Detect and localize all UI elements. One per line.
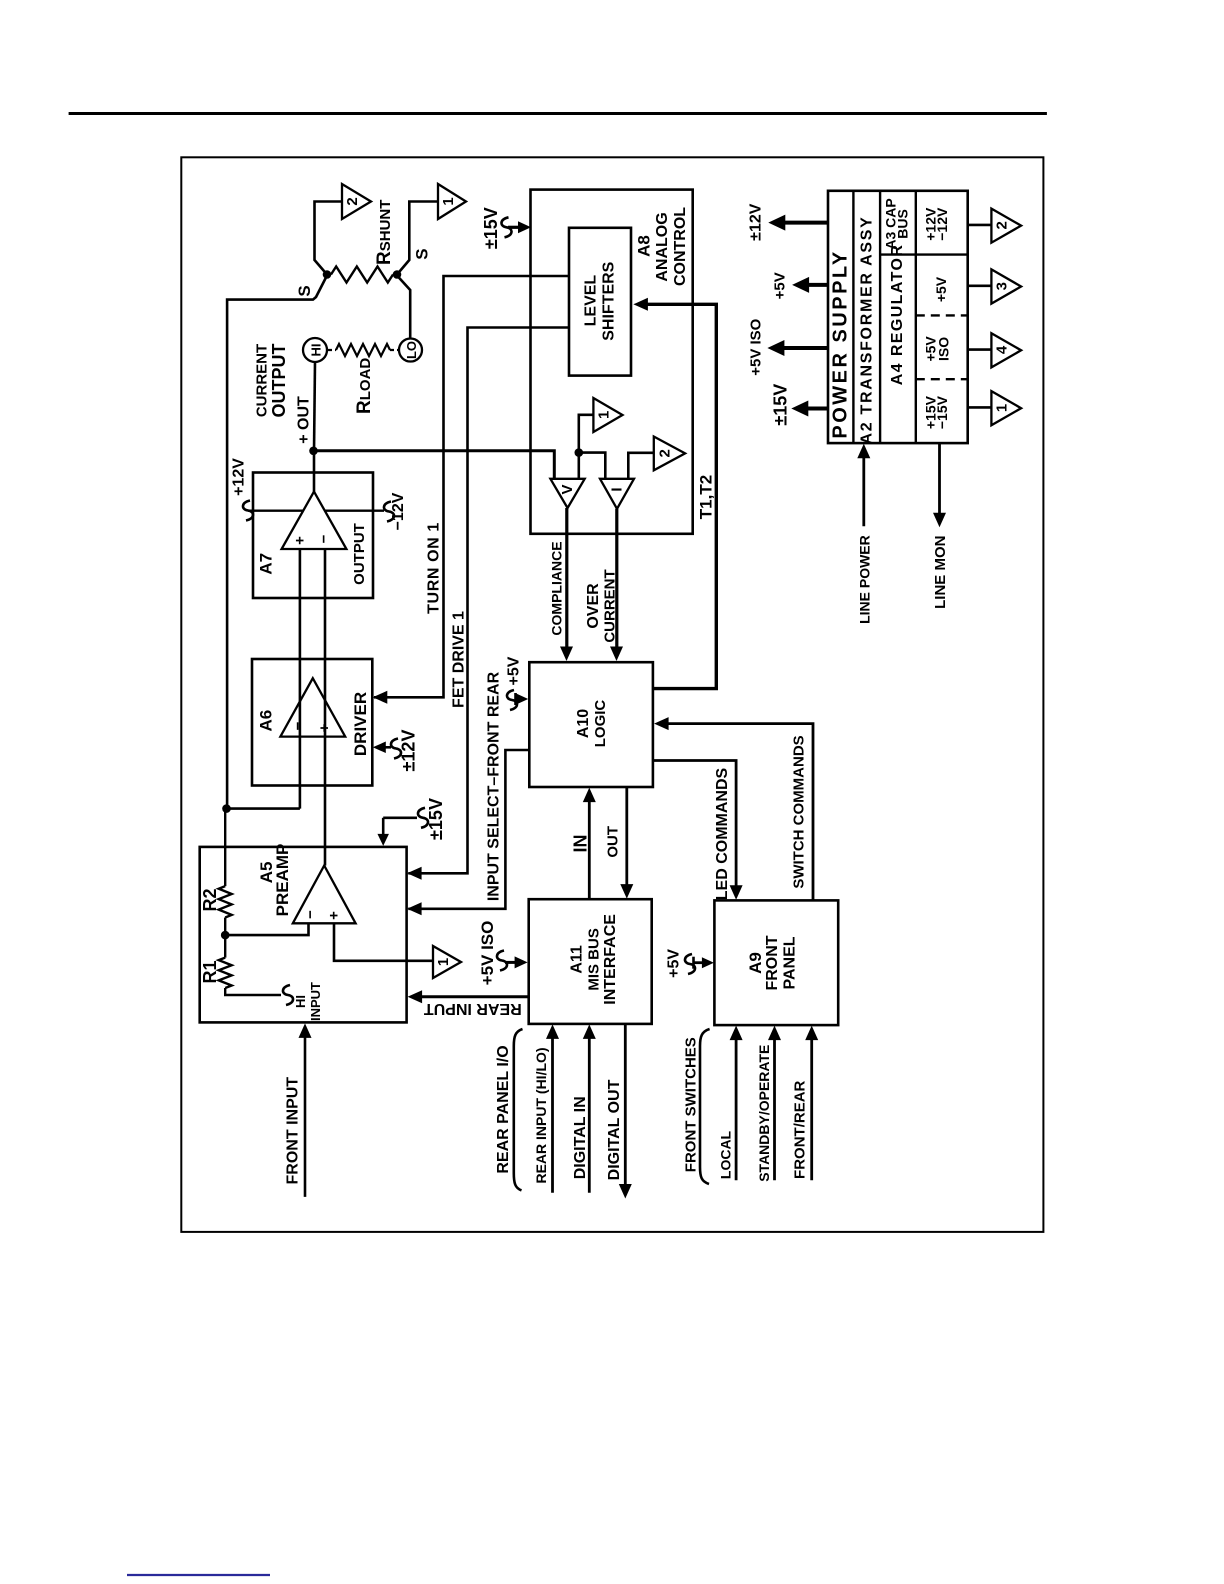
svg-text:TURN ON 1: TURN ON 1	[426, 522, 443, 614]
junction dot RSHUNT left	[323, 270, 332, 279]
divider A3 cap bus row	[880, 253, 968, 255]
wire PS to triangle 3	[968, 284, 992, 287]
wire node to I input	[579, 453, 606, 479]
divider power supply col3	[915, 191, 917, 443]
block A5 PREAMP box	[200, 847, 407, 1023]
wire PS to triangle 1	[968, 406, 992, 409]
svg-text:OUTPUT: OUTPUT	[351, 523, 368, 585]
signal COMPLIANCE arrow	[565, 508, 568, 652]
signal FET DRIVE 1 wire	[408, 328, 569, 874]
svg-text:OVER: OVER	[585, 583, 602, 629]
terminal HI	[303, 338, 327, 362]
svg-text:+: +	[292, 536, 309, 545]
svg-text:HI: HI	[293, 995, 308, 1008]
svg-text:A8: A8	[635, 235, 654, 257]
sense wire S right to LO	[397, 276, 410, 340]
signal LED COMMANDS wire	[653, 761, 736, 891]
svg-text:SHIFTERS: SHIFTERS	[600, 261, 617, 340]
svg-text:BUS: BUS	[894, 209, 910, 239]
svg-text:±15V: ±15V	[481, 207, 501, 249]
svg-text:RLOAD: RLOAD	[354, 358, 375, 414]
PS connector triangle 3	[991, 269, 1021, 303]
svg-text:+ OUT: + OUT	[296, 396, 313, 444]
wire to triangle 2	[315, 202, 343, 275]
node +OUT dot	[309, 447, 318, 456]
svg-text:R1: R1	[200, 960, 220, 983]
footer link line	[127, 1574, 270, 1576]
signal OUT arrow	[625, 787, 628, 889]
svg-text:+5V ISO: +5V ISO	[747, 318, 764, 375]
power ±12V out arrow	[782, 221, 828, 225]
divider dashed ISO/15V	[916, 378, 968, 380]
wire HI to +OUT node	[314, 362, 315, 452]
block A8 ANALOG CONTROL box	[531, 190, 693, 534]
signal LOCAL arrow	[735, 1034, 738, 1180]
diagram outer border	[181, 157, 1043, 1232]
svg-text:LOCAL: LOCAL	[718, 1130, 734, 1179]
junction dot S-net	[222, 804, 231, 813]
svg-text:A9: A9	[746, 952, 765, 974]
wire PS to triangle 4	[968, 348, 992, 351]
signal REAR INPUT (HI/LO) arrow	[551, 1033, 554, 1193]
svg-text:HI: HI	[309, 344, 324, 357]
signal INPUT SELECT wire	[408, 750, 529, 909]
svg-text:INPUT: INPUT	[308, 982, 323, 1021]
svg-text:I: I	[609, 487, 626, 491]
block A10 LOGIC box	[529, 662, 653, 787]
op-amp A6	[280, 678, 345, 736]
svg-text:A11: A11	[568, 945, 585, 974]
svg-text:PANEL: PANEL	[782, 936, 799, 989]
wire +OUT to A8 V input	[314, 451, 555, 479]
svg-text:RSHUNT: RSHUNT	[374, 200, 395, 265]
power +5V ISO tap	[497, 951, 507, 971]
svg-text:V: V	[559, 484, 576, 494]
svg-text:CURRENT: CURRENT	[254, 344, 271, 417]
signal REAR INPUT wire	[419, 995, 529, 998]
block A11 MIS BUS box	[529, 899, 652, 1024]
PS connector triangle 1	[991, 391, 1021, 425]
svg-text:A4 REGULATOR: A4 REGULATOR	[889, 244, 906, 386]
svg-text:1: 1	[440, 197, 457, 205]
wire PS to triangle 2	[968, 224, 992, 227]
svg-text:4: 4	[994, 345, 1011, 354]
svg-text:LINE MON: LINE MON	[932, 536, 949, 609]
svg-text:A6: A6	[257, 710, 276, 732]
svg-text:−12V: −12V	[934, 207, 950, 241]
connector triangle 1 (sense)	[438, 184, 466, 219]
svg-text:LO: LO	[404, 341, 419, 359]
svg-text:INPUT SELECT–FRONT REAR: INPUT SELECT–FRONT REAR	[486, 671, 503, 901]
block LEVEL SHIFTERS box	[569, 228, 631, 376]
svg-text:ANALOG: ANALOG	[654, 212, 671, 281]
svg-text:+12V: +12V	[231, 458, 248, 496]
svg-text:FET DRIVE 1: FET DRIVE 1	[451, 611, 468, 708]
svg-text:DIGITAL IN: DIGITAL IN	[572, 1096, 589, 1179]
divider power supply col1	[852, 191, 854, 443]
wire triangle1 to node	[579, 415, 594, 479]
svg-text:IN: IN	[571, 835, 591, 853]
svg-text:REAR INPUT (HI/LO): REAR INPUT (HI/LO)	[533, 1047, 549, 1183]
block A9 FRONT PANEL box	[714, 900, 838, 1025]
block A7 OUTPUT box	[253, 473, 373, 599]
power ±12V arrow (A6)	[373, 742, 386, 754]
svg-text:+5V ISO: +5V ISO	[478, 921, 497, 986]
svg-text:−: −	[290, 721, 307, 730]
svg-text:REAR INPUT: REAR INPUT	[424, 1000, 522, 1017]
svg-text:+5V: +5V	[933, 276, 949, 302]
connector triangle 2 (sense)	[342, 184, 371, 219]
power +5V ISO out arrow	[781, 346, 828, 350]
junction dot RSHUNT right	[393, 270, 402, 279]
svg-text:DRIVER: DRIVER	[351, 692, 370, 756]
svg-text:1: 1	[994, 404, 1011, 412]
svg-text:1: 1	[595, 411, 612, 419]
PS connector triangle 4	[991, 333, 1021, 367]
wire R1R2 node to A5 minus	[225, 923, 308, 935]
junction dot A8 node	[575, 448, 584, 457]
svg-text:OUT: OUT	[605, 826, 622, 858]
connector triangle 2 (A8)	[654, 437, 685, 471]
bracket front switches group	[700, 1029, 710, 1184]
HI INPUT squiggle	[283, 985, 293, 1005]
wire to triangle 1	[397, 202, 438, 275]
svg-text:−12V: −12V	[390, 492, 407, 530]
svg-text:FRONT SWITCHES: FRONT SWITCHES	[682, 1037, 699, 1172]
svg-text:INTERFACE: INTERFACE	[602, 914, 619, 1005]
svg-text:FRONT/REAR: FRONT/REAR	[791, 1080, 808, 1178]
power ±15V tap wire (A5)	[418, 808, 428, 828]
svg-text:±15V: ±15V	[426, 798, 446, 840]
svg-text:T1,T2: T1,T2	[696, 475, 715, 519]
signal FRONT INPUT wire	[304, 1033, 307, 1197]
svg-text:+5V: +5V	[772, 272, 789, 299]
svg-text:LED COMMANDS: LED COMMANDS	[714, 767, 731, 900]
svg-text:DIGITAL OUT: DIGITAL OUT	[606, 1079, 623, 1180]
svg-text:−15V: −15V	[934, 395, 950, 429]
wire S-net to A7+/A6- input	[227, 807, 300, 810]
resistor RSHUNT	[331, 267, 393, 283]
svg-text:COMPLIANCE: COMPLIANCE	[549, 541, 565, 635]
signal FRONT/REAR arrow	[810, 1034, 813, 1180]
terminal LO	[399, 339, 422, 362]
svg-text:A7: A7	[257, 553, 276, 575]
svg-text:LOGIC: LOGIC	[592, 700, 609, 748]
svg-text:MIS BUS: MIS BUS	[586, 928, 603, 991]
svg-text:−: −	[316, 534, 333, 543]
svg-text:FRONT INPUT: FRONT INPUT	[285, 1077, 302, 1185]
bracket rear panel group	[514, 1029, 523, 1190]
power ±15V out arrow	[805, 407, 828, 411]
svg-text:POWER SUPPLY: POWER SUPPLY	[830, 249, 852, 438]
svg-text:2: 2	[656, 449, 673, 457]
resistor R1	[224, 935, 226, 958]
wire A7 output to +OUT	[313, 451, 316, 492]
signal OVER CURRENT arrow	[615, 509, 618, 652]
svg-text:+5V: +5V	[666, 949, 683, 978]
svg-text:±15V: ±15V	[771, 384, 791, 426]
svg-text:R2: R2	[200, 888, 220, 911]
svg-text:OUTPUT: OUTPUT	[269, 344, 289, 418]
wire triangle2 to I input	[628, 453, 654, 479]
signal LINE MON arrow	[938, 443, 941, 518]
divider power supply col2	[879, 191, 881, 443]
power +5V tap (A9)	[685, 954, 695, 974]
svg-text:+: +	[326, 911, 343, 920]
signal SWITCH COMMANDS wire	[664, 724, 813, 901]
svg-text:3: 3	[994, 282, 1011, 290]
power +5V out arrow	[805, 283, 828, 287]
svg-text:LINE POWER: LINE POWER	[857, 535, 873, 624]
svg-text:±12V: ±12V	[399, 730, 419, 772]
signal STANDBY/OPERATE arrow	[773, 1034, 776, 1180]
resistor R2	[224, 812, 226, 886]
block A6 DRIVER box	[252, 659, 372, 786]
svg-text:+5V: +5V	[505, 656, 522, 685]
svg-text:±12V: ±12V	[748, 203, 765, 241]
svg-text:SWITCH COMMANDS: SWITCH COMMANDS	[791, 735, 808, 888]
svg-text:CURRENT: CURRENT	[602, 569, 619, 642]
svg-text:STANDBY/OPERATE: STANDBY/OPERATE	[756, 1045, 772, 1182]
svg-text:−: −	[302, 910, 319, 919]
sense wire S left run	[227, 276, 327, 808]
power +5V tap (A10)	[507, 690, 517, 710]
connector triangle 1 (A5 out)	[433, 946, 461, 978]
block POWER SUPPLY box	[828, 191, 968, 443]
power ±15V tap (A8)	[501, 217, 511, 237]
wire A5 out to A6+/A7- input	[324, 549, 327, 866]
svg-text:LEVEL: LEVEL	[582, 275, 599, 327]
power -12V tap (A7)	[325, 510, 384, 512]
signal IN arrow	[588, 797, 591, 899]
power +12V tap (A7)	[243, 501, 253, 521]
svg-text:A2 TRANSFORMER ASSY: A2 TRANSFORMER ASSY	[858, 215, 875, 444]
svg-text:1: 1	[435, 958, 452, 966]
svg-text:S: S	[412, 248, 431, 259]
PS connector triangle 2	[991, 209, 1021, 243]
divider dashed +5V/+5V ISO	[916, 314, 968, 316]
svg-text:CONTROL: CONTROL	[672, 207, 689, 286]
op-amp A7	[282, 492, 347, 549]
junction dot R1/R2	[221, 931, 230, 940]
signal T1,T2 loop wire	[645, 304, 716, 688]
resistor RLOAD	[328, 349, 336, 351]
signal TURN ON 1 wire	[374, 276, 569, 697]
svg-text:REAR PANEL I/O: REAR PANEL I/O	[495, 1045, 512, 1173]
op-amp A5	[293, 866, 356, 924]
page top rule	[69, 112, 1047, 115]
wire A5 plus from front/rear	[334, 923, 433, 961]
signal DIGITAL IN arrow	[588, 1033, 591, 1193]
signal LINE POWER arrow	[862, 453, 865, 526]
svg-text:ISO: ISO	[936, 337, 952, 361]
comparator I triangle	[600, 479, 634, 509]
comparator V triangle	[550, 479, 584, 508]
svg-text:FRONT: FRONT	[764, 935, 781, 990]
svg-text:PREAMP: PREAMP	[273, 844, 292, 917]
svg-text:S: S	[295, 285, 314, 296]
svg-text:2: 2	[994, 221, 1011, 229]
svg-text:2: 2	[344, 197, 361, 205]
svg-text:A10: A10	[575, 709, 592, 738]
signal DIGITAL OUT arrow	[624, 1024, 627, 1189]
connector triangle 1 (A8)	[593, 398, 622, 432]
